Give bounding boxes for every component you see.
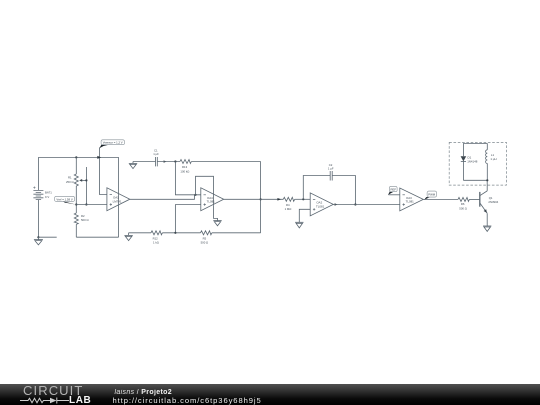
- label Vsensor callout: [99, 140, 124, 149]
- svg-text:250 Ω: 250 Ω: [66, 180, 74, 184]
- svg-text:500 Ω: 500 Ω: [459, 206, 467, 210]
- footer bar: [0, 384, 540, 405]
- wire battery node stub right: [38, 236, 56, 238]
- wire R6 to Q1 base: [469, 198, 479, 200]
- node marker Vsensor crosses rail: [97, 156, 101, 159]
- svg-text:1 µH: 1 µH: [490, 157, 496, 161]
- wire OA4 supply stub to ground: [214, 205, 218, 220]
- wire OA3 output to R6: [423, 198, 458, 200]
- svg-text:BAT1: BAT1: [45, 190, 52, 194]
- wire emitter down: [486, 213, 488, 226]
- svg-text:PWM: PWM: [428, 193, 436, 197]
- logo CIRCUIT: [23, 384, 83, 397]
- wire long vertical through OA1: [118, 157, 120, 237]
- node marker after C1: [164, 160, 167, 162]
- svg-text:TL081: TL081: [316, 204, 325, 208]
- capacitor C1 1uF: [153, 149, 159, 167]
- node marker at OA2 output: [335, 203, 338, 205]
- label Vref callout: [55, 196, 77, 204]
- svg-text:1 µF: 1 µF: [153, 152, 159, 156]
- svg-text:REF: REF: [391, 188, 397, 192]
- wire top rail from battery to long vertical: [38, 156, 118, 158]
- url text: [113, 397, 262, 405]
- ground GND5 below OA2 plus: [295, 222, 303, 228]
- resistor R4 1M: [283, 197, 294, 211]
- svg-text:TL081: TL081: [406, 200, 415, 204]
- wire bottom rail left part: [129, 232, 151, 234]
- resistor R12 1k: [151, 231, 162, 245]
- junction R1 top tap on rail: [75, 156, 77, 158]
- ground GND1 below battery: [34, 237, 43, 245]
- junction wiper to plus-wire: [85, 203, 87, 205]
- wire bottom rail right part: [212, 232, 261, 234]
- svg-text:500 Ω: 500 Ω: [81, 218, 89, 222]
- svg-text:9 V: 9 V: [45, 195, 49, 199]
- junction plus-branch on bottom rail: [174, 232, 176, 234]
- svg-text:1N4148: 1N4148: [467, 160, 478, 164]
- svg-text:1 kΩ: 1 kΩ: [153, 241, 159, 245]
- ground GND6 at emitter: [483, 226, 491, 231]
- svg-text:Vsensor = 1,2 V: Vsensor = 1,2 V: [103, 141, 123, 145]
- inductor L1 1uH: [486, 143, 497, 180]
- wire OA4 plus input: [175, 205, 200, 233]
- resistor R2 500 Ohm: [74, 205, 88, 238]
- resistor R13 100k: [180, 160, 191, 174]
- wire snubber bottom: [463, 179, 487, 181]
- capacitor C2 1uF: [328, 163, 334, 181]
- svg-text:2N3904: 2N3904: [488, 200, 498, 204]
- svg-text:1 MΩ: 1 MΩ: [285, 207, 292, 211]
- label PWM callout: [424, 191, 436, 200]
- node marker before R4: [277, 198, 281, 201]
- wire bottom rail mid: [162, 232, 200, 234]
- battery BAT1 9V: [33, 157, 52, 237]
- ground GND2 for C1: [129, 162, 137, 169]
- wire OA2 feedback up and over: [303, 176, 330, 200]
- logo LAB: [69, 396, 91, 405]
- wire R13 to right vertical: [191, 161, 260, 163]
- op-amp OA2 TL081: [310, 193, 333, 216]
- wire R2 bottom to long vertical: [76, 236, 118, 238]
- svg-text:Vref = 1,58 V: Vref = 1,58 V: [56, 197, 72, 201]
- wire Vsensor net vertical: [100, 148, 107, 195]
- svg-text:TL081: TL081: [207, 200, 216, 204]
- logo schematic squiggle: [19, 396, 71, 405]
- wire collector up to snubber box: [486, 180, 488, 191]
- label REF callout: [388, 186, 397, 195]
- dashed snubber box: [449, 142, 506, 185]
- svg-text:1 µF: 1 µF: [328, 166, 334, 170]
- svg-text:100 kΩ: 100 kΩ: [180, 169, 189, 173]
- wire C1 to R13: [157, 161, 180, 163]
- transistor Q1 2N3904: [480, 191, 499, 213]
- junction C1 R13 node: [174, 160, 176, 162]
- resistor R5 500 Ohm bottom: [201, 231, 212, 245]
- junction OA2 output node: [354, 203, 356, 205]
- ground GND3 below OA4: [213, 221, 221, 226]
- wire OA2 plus to ground: [299, 209, 310, 222]
- svg-text:LM741: LM741: [113, 199, 122, 203]
- junction snubber to collector: [486, 179, 488, 181]
- junction battery bottom node: [37, 236, 39, 238]
- wire C2 to feedback right vertical: [332, 176, 355, 205]
- junction divider node Vref: [75, 203, 77, 205]
- wire gnd to C1: [133, 161, 156, 163]
- byline: [115, 389, 173, 397]
- ground GND4 left end of bottom rail: [124, 233, 132, 241]
- op-amp OA4 TL081: [201, 188, 224, 211]
- junction wiper joint: [85, 179, 87, 181]
- wire R4 to OA2 minus: [295, 198, 311, 200]
- junction OA4 output node: [260, 198, 262, 200]
- op-amp OA1 LM741: [107, 188, 130, 211]
- wire snubber top: [463, 142, 487, 144]
- wire OA1 output to OA4 minus node: [130, 195, 195, 200]
- wire OA4 minus branch vertical: [175, 162, 200, 195]
- wire OA2 output to OA3 plus: [333, 204, 400, 206]
- junction OA2 minus node: [302, 198, 304, 200]
- potentiometer R1 250 Ohm: [66, 157, 86, 204]
- wire right vertical of OA4 loop: [260, 162, 262, 233]
- wire OA3 minus stub REF: [389, 194, 400, 196]
- svg-text:500 Ω: 500 Ω: [201, 241, 209, 245]
- wire OA4 loop over top: [196, 176, 214, 205]
- wire pot wiper vertical: [85, 167, 87, 205]
- op-amp OA3 TL081: [400, 188, 424, 211]
- wire OA4 output to R4: [224, 198, 284, 200]
- resistor R6 500 Ohm base: [458, 197, 469, 210]
- junction OA4 minus node: [194, 194, 196, 196]
- diode D1 1N4148: [461, 143, 478, 180]
- wire divider to op-amp plus input: [76, 204, 107, 206]
